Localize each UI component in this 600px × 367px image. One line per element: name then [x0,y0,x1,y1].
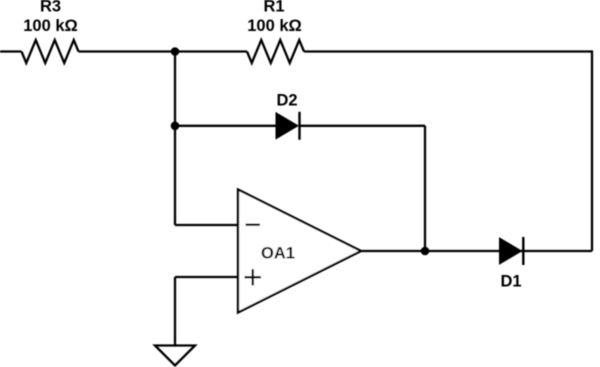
pin + (non-inverting input symbol) [245,269,261,285]
wire (non-inverting input horizontal) [175,276,238,278]
wire (vertical to ground) [174,277,176,346]
node (output junction) [421,247,430,256]
wire (D2 branch left) [175,125,277,127]
wire (left vertical from junction to inverting input) [174,52,176,226]
wire [304,50,592,52]
diode D1 [500,237,524,265]
op-amp OA1 [238,190,361,313]
resistor R3 [22,40,79,63]
wire (vertical from D2 to output node) [424,126,426,251]
node (D2 branch junction) [171,122,180,131]
node (input junction) [171,47,180,56]
svg-text:D2: D2 [276,92,297,110]
svg-text:R3: R3 [40,0,61,16]
wire (right feedback vertical) [591,50,593,251]
svg-text:100 kΩ: 100 kΩ [23,17,78,35]
ground [155,346,195,366]
svg-text:D1: D1 [500,273,521,291]
svg-text:OA1: OA1 [261,245,295,263]
wire (output) [361,250,592,252]
wire [79,50,248,52]
wire (D2 branch right) [300,125,426,127]
wire (inverting input horizontal) [175,224,238,226]
svg-text:100 kΩ: 100 kΩ [247,17,302,35]
svg-text:R1: R1 [263,0,284,16]
wire [0,50,22,52]
pin - (inverting input symbol) [246,224,260,226]
resistor R1 [247,40,304,63]
diode D2 [276,112,300,140]
